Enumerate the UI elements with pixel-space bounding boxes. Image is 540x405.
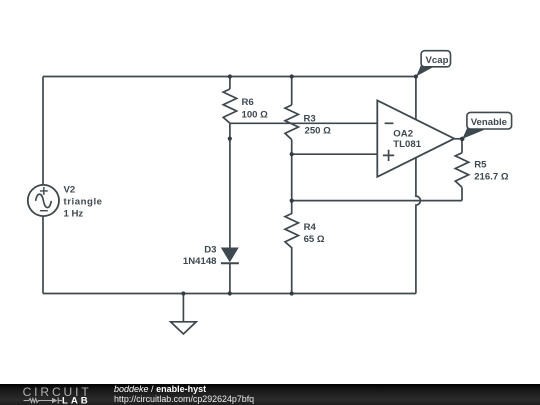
wire feedback rail (node to R5 bottom)	[292, 200, 462, 202]
label R4 65 Ohm	[304, 222, 325, 245]
junction dot Vcap corner	[414, 74, 418, 78]
wire R5 top lead	[461, 139, 463, 153]
svg-text:OA2: OA2	[393, 129, 413, 140]
svg-text:LAB: LAB	[62, 395, 91, 405]
svg-text:D3: D3	[204, 244, 216, 255]
label OA2 TL081	[393, 129, 421, 151]
junction dot feedback node	[290, 199, 294, 203]
svg-text:Vcap: Vcap	[426, 55, 449, 66]
label R6 100 Ohm	[242, 97, 269, 121]
junction dot plus input node	[290, 152, 294, 156]
svg-text:1 Hz: 1 Hz	[64, 208, 84, 219]
wire non-inverting input (node to op-amp plus)	[292, 153, 378, 155]
wire inverting input (R6 bottom to op-amp minus)	[230, 122, 377, 124]
junction dot diode bottom	[228, 291, 232, 295]
svg-text:R6: R6	[242, 97, 254, 108]
ground symbol	[171, 294, 197, 335]
svg-text:100 Ω: 100 Ω	[242, 110, 269, 121]
resistor R3	[285, 105, 298, 140]
label R3 250 Ohm	[304, 114, 332, 137]
svg-text:R5: R5	[474, 160, 487, 171]
wire R6 top lead	[229, 77, 231, 90]
label D3 1N4148	[183, 244, 217, 266]
wire top rail	[43, 76, 416, 78]
footer text line 1	[114, 384, 206, 394]
svg-text:250 Ω: 250 Ω	[305, 126, 332, 137]
footer text line 2	[114, 394, 254, 404]
node flag Venable	[462, 112, 511, 138]
wire R4 bottom to bottom rail	[291, 263, 293, 294]
wire left rail lower	[42, 216, 44, 293]
svg-text:Venable: Venable	[471, 117, 507, 128]
wire R6 bottom to diode anode	[229, 123, 231, 248]
voltage source V2	[28, 185, 59, 216]
junction dot top rail R6	[228, 74, 232, 78]
wire R5 bottom lead	[461, 187, 463, 200]
junction dot output node	[460, 137, 465, 142]
wire bottom rail	[43, 293, 416, 295]
resistor R5	[455, 153, 468, 188]
wire left rail upper	[42, 77, 44, 185]
svg-text:65 Ω: 65 Ω	[304, 234, 325, 245]
junction dot ground	[181, 291, 185, 295]
svg-text:triangle: triangle	[64, 196, 103, 207]
wire R3 bottom to R4 node	[291, 140, 293, 201]
wire diode cathode to bottom rail	[229, 263, 231, 293]
wire op-amp output	[454, 138, 462, 140]
op-amp OA2 TL081	[377, 100, 454, 176]
diode D3	[221, 248, 239, 263]
junction dot R6 column	[228, 137, 232, 141]
svg-text:TL081: TL081	[393, 139, 421, 150]
svg-text:216.7 Ω: 216.7 Ω	[474, 172, 509, 183]
svg-text:V2: V2	[64, 184, 76, 195]
footer logo CircuitLab	[0, 384, 110, 405]
svg-text:R4: R4	[304, 222, 317, 233]
wire op-amp V+ stub to Vcap net	[415, 77, 417, 120]
svg-text:R3: R3	[304, 114, 316, 125]
resistor R6	[223, 89, 236, 123]
wire R3 top lead	[291, 77, 293, 106]
label R5 216.7 Ohm	[474, 160, 509, 183]
resistor R4	[285, 201, 298, 263]
footer bar	[0, 384, 540, 405]
junction dot R4 bottom	[290, 291, 294, 295]
svg-text:1N4148: 1N4148	[183, 256, 217, 267]
label V2 triangle 1 Hz	[64, 184, 103, 219]
wire op-amp V- stub with hop to bottom rail	[416, 158, 421, 294]
junction dot top rail R3	[290, 74, 294, 78]
node flag Vcap	[416, 51, 450, 77]
